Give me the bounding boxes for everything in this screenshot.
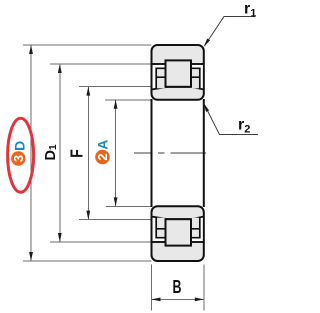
cage cell left bottom [156,218,165,238]
inner ring raceway crown bottom [152,217,204,220]
extension line D bottom [23,260,152,262]
extension line D1 top [50,63,152,65]
dimension line D [30,45,32,261]
svg-text:3: 3 [11,155,26,162]
outer ring rib line bottom [152,241,166,243]
svg-text:r1: r1 [244,1,256,20]
svg-text:2: 2 [95,153,110,160]
top section outer ring [152,45,204,100]
bore line right [203,99,205,207]
extension line F bottom [79,219,152,221]
inner ring raceway crown top [152,87,204,90]
dimension line F [87,87,89,220]
cage lines bottom [156,217,165,238]
dimension line D1 [59,64,61,242]
extension line F top [79,86,152,88]
r2 leader [204,104,258,135]
cage cell right bottom [191,218,200,238]
bore line left [151,99,153,207]
dimension line 2A [115,100,117,207]
r1 leader [205,17,256,46]
top section cavity [153,64,203,90]
extension line D1 bottom [50,241,152,243]
svg-text:D: D [12,141,28,151]
cage cell right top [191,68,200,88]
outer ring rib line top [152,63,166,65]
cage lines top [156,68,165,89]
roller bottom [166,219,192,245]
red ellipse highlight [8,118,34,192]
svg-text:r2: r2 [238,117,250,136]
svg-text:D1: D1 [43,144,59,160]
svg-text:F: F [67,149,87,158]
B extension lines [151,265,153,311]
bottom section cavity [153,216,203,242]
extension line 2A bottom [106,205,152,207]
bottom section outer ring [152,206,204,261]
extension line D top [23,44,152,46]
centerline [134,152,152,154]
svg-text:A: A [94,140,110,150]
label 2A: circled 2 [95,150,110,165]
cage cell left top [156,68,165,88]
roller top [166,60,192,86]
svg-text:B: B [173,276,182,297]
extension line 2A top [105,99,152,101]
label 3D: circled 3 [11,151,25,165]
B dimension line [152,298,204,300]
